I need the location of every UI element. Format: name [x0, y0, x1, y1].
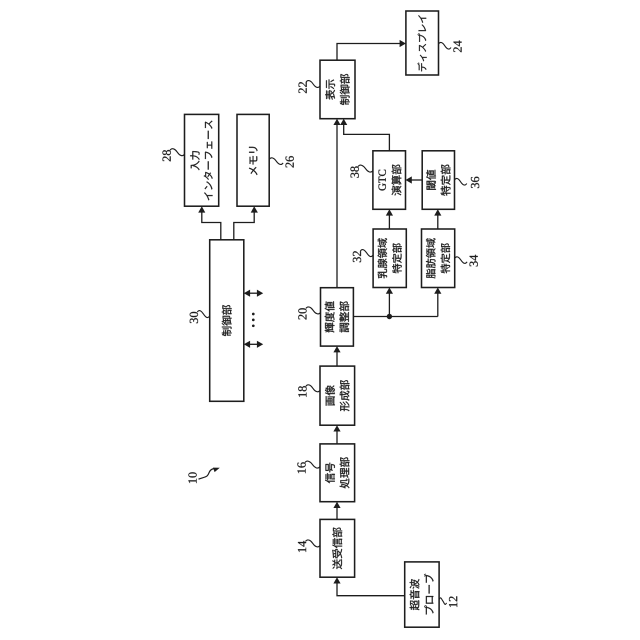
- junction dot on branch: [387, 314, 392, 319]
- threshold identification block 36 (閾値特定部): [422, 151, 454, 210]
- reference numeral 38: [350, 165, 372, 178]
- reference numeral 18: [298, 385, 320, 397]
- reference numeral 22: [299, 81, 320, 94]
- leader arrow for numeral 10: [199, 468, 220, 480]
- reference numeral 12: [439, 596, 457, 607]
- wire 18 to 20: [333, 346, 340, 366]
- reference numeral 30: [190, 311, 210, 324]
- input interface block 28 (入力インターフェース): [185, 114, 219, 206]
- control block 30 (制御部): [210, 240, 244, 402]
- reference numeral 24: [439, 41, 462, 53]
- transmit/receive block 14 (送受信部): [320, 519, 355, 577]
- display block 24 (ディスプレイ): [406, 11, 439, 75]
- reference numeral 28: [162, 149, 184, 162]
- wire probe 12 to transmit/receive 14: [333, 577, 404, 596]
- wire 32 to 38: [386, 209, 393, 229]
- memory block 26 (メモリ): [237, 114, 269, 206]
- bidirectional bus arrow from 30 (left): [244, 341, 263, 348]
- reference numeral 32: [353, 250, 373, 263]
- reference numeral 36: [455, 177, 480, 188]
- wire 38 to 22: [340, 119, 389, 151]
- mammary region identification block 32 (乳腺領域特定部): [373, 229, 406, 288]
- image forming block 18 (画像形成部): [320, 366, 355, 425]
- wire branch to 32: [386, 288, 393, 317]
- reference numeral 16: [297, 461, 320, 473]
- wire 30 to 26: [234, 206, 258, 240]
- wire 22 to display 24: [337, 40, 406, 60]
- wire 16 to 18: [333, 425, 340, 444]
- bidirectional bus arrow from 30 (right): [244, 290, 263, 297]
- ultrasound probe block 12 (超音波プローブ): [405, 562, 439, 627]
- reference numeral 34: [455, 255, 478, 267]
- GTC calculation block 38 (GTC演算部): [373, 151, 406, 210]
- wire 20 branch down: [353, 316, 437, 318]
- display control block 22 (表示制御部): [320, 60, 355, 119]
- wire 20 to 22: [333, 119, 340, 288]
- wire 14 to 16: [333, 502, 340, 520]
- luminance adjustment block 20 (輝度値調整部): [321, 288, 354, 346]
- signal processing block 16 (信号処理部): [320, 444, 355, 502]
- wire 30 to 28: [198, 206, 221, 240]
- wire branch to 34: [434, 288, 441, 317]
- wire 36 to 38: [406, 176, 423, 183]
- reference numeral 10 with leader arrow: [188, 472, 196, 483]
- wire 34 to 36: [434, 209, 441, 229]
- reference numeral 20: [298, 307, 320, 320]
- fat region identification block 34 (脂肪領域特定部): [422, 229, 455, 288]
- ellipsis dots between bus arrows: [252, 313, 255, 328]
- reference numeral 14: [298, 540, 320, 552]
- reference numeral 26: [269, 156, 294, 167]
